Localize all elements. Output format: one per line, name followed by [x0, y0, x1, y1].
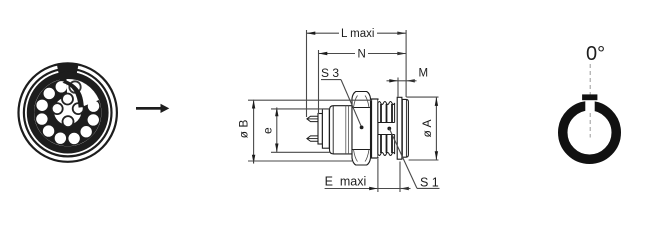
svg-text:M: M [419, 67, 429, 79]
svg-text:e: e [261, 127, 275, 134]
svg-text:0°: 0° [586, 43, 605, 65]
svg-text:N: N [358, 48, 366, 60]
svg-text:ø B: ø B [237, 120, 251, 139]
svg-text:L maxi: L maxi [341, 28, 374, 40]
svg-text:ø A: ø A [420, 119, 434, 137]
svg-text:E maxi: E maxi [325, 174, 367, 188]
svg-text:S 1: S 1 [420, 175, 439, 189]
svg-text:S 3: S 3 [321, 66, 339, 80]
